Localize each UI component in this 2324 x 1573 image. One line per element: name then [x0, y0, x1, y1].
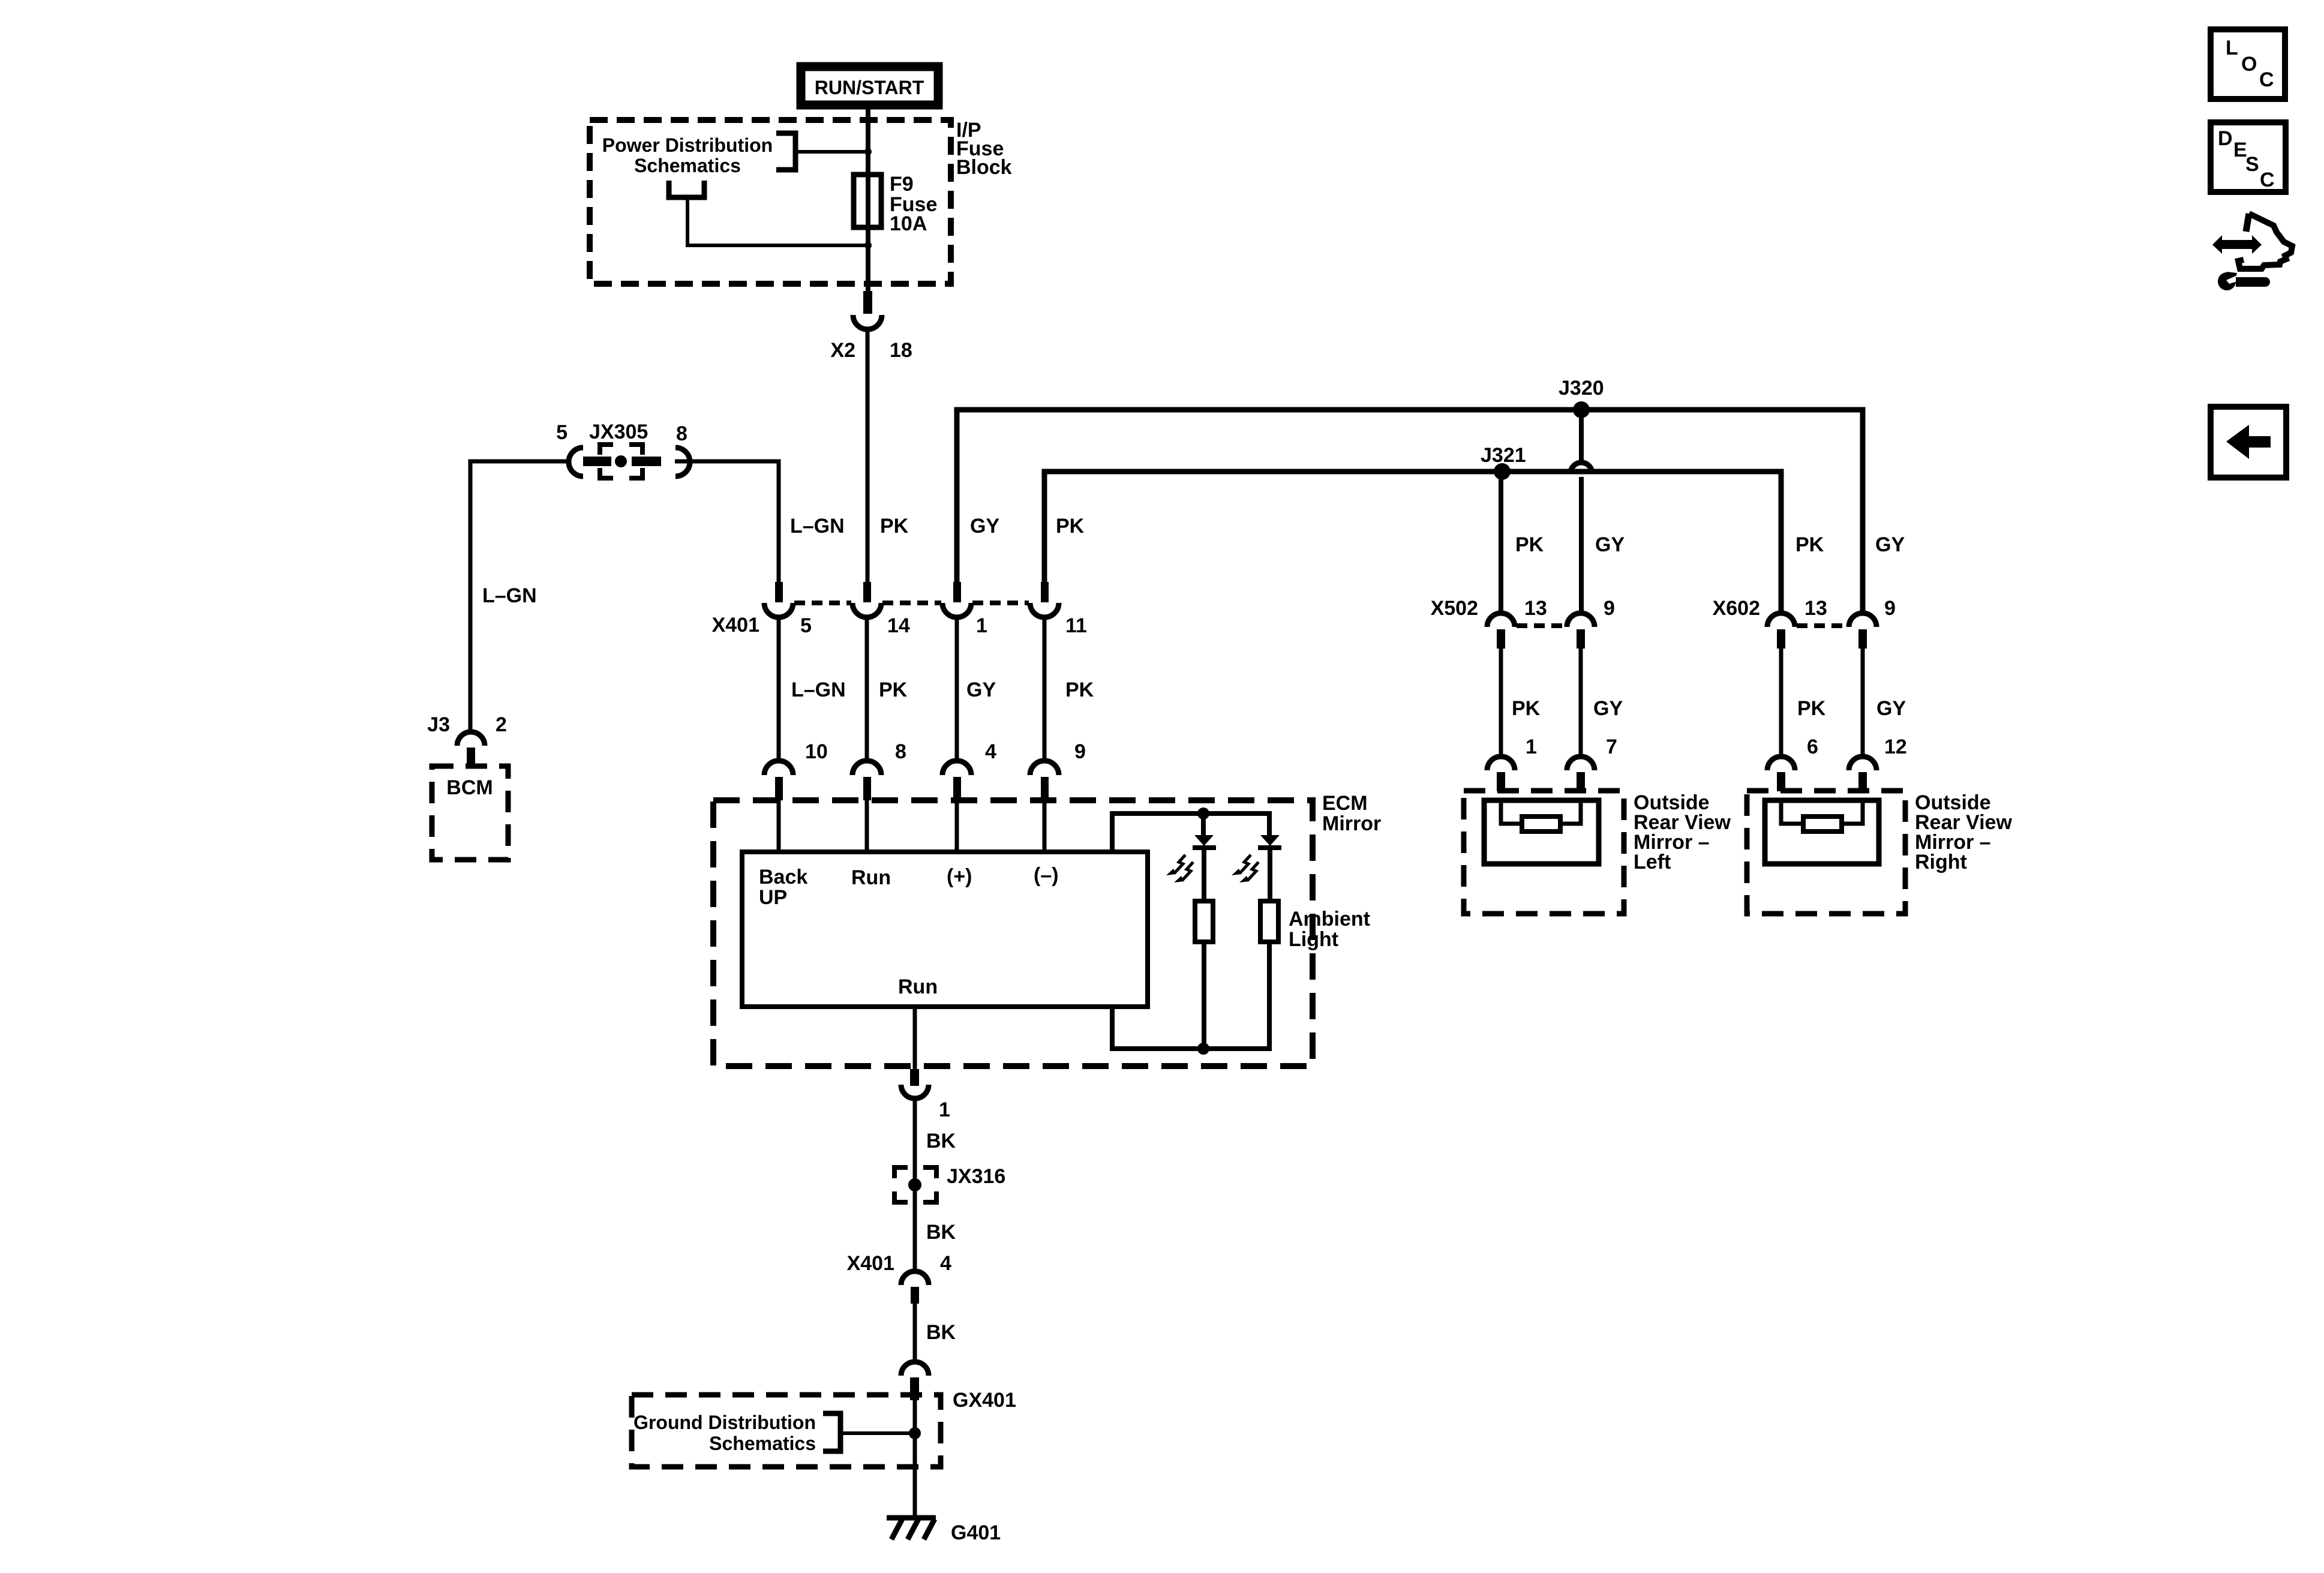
- mirror-left element box: [1484, 800, 1599, 864]
- junction J321 wire: [1044, 472, 1781, 613]
- svg-text:GY: GY: [1593, 697, 1623, 720]
- node J321: [1494, 463, 1511, 480]
- svg-text:1: 1: [976, 614, 987, 637]
- wire BK: [913, 1304, 917, 1361]
- mirror-right element box: [1765, 800, 1879, 864]
- junction J320 wire: [957, 410, 1863, 613]
- wire pin 10 to Back UP: [777, 800, 781, 852]
- connector dashes: [1517, 623, 1566, 628]
- svg-text:PK: PK: [880, 515, 909, 538]
- wire GY X401-1 to pin 4: [955, 617, 959, 761]
- splice JX316: [894, 1165, 1005, 1202]
- pin 10 terminal: [764, 761, 793, 775]
- svg-text:X502: X502: [1431, 597, 1478, 620]
- svg-text:2: 2: [496, 713, 507, 736]
- svg-text:4: 4: [985, 740, 996, 763]
- svg-text:C: C: [2259, 68, 2274, 91]
- node: [1197, 807, 1209, 819]
- svg-text:Block: Block: [956, 156, 1012, 179]
- connector X602 row: [1713, 597, 1896, 649]
- svg-text:GX401: GX401: [953, 1389, 1016, 1412]
- photodiode D1: [1193, 813, 1216, 901]
- svg-text:11: 11: [1065, 614, 1087, 637]
- svg-text:L–GN: L–GN: [790, 515, 845, 538]
- ground G401: [887, 1518, 1001, 1544]
- svg-text:L: L: [2226, 37, 2238, 59]
- svg-text:(+): (+): [947, 865, 972, 888]
- svg-text:RUN/START: RUN/START: [815, 77, 924, 98]
- pin 9 terminal: [1849, 613, 1876, 627]
- svg-text:UP: UP: [759, 886, 787, 909]
- svg-text:X602: X602: [1713, 597, 1760, 620]
- svg-text:10A: 10A: [890, 212, 927, 235]
- resistor mirror-left: [1522, 816, 1560, 831]
- svg-text:F9: F9: [890, 173, 914, 196]
- svg-text:GY: GY: [970, 515, 999, 538]
- svg-text:BCM: BCM: [446, 776, 493, 799]
- icon DESC: [2211, 122, 2286, 192]
- svg-text:5: 5: [556, 421, 568, 444]
- svg-text:Left: Left: [1634, 851, 1671, 873]
- wire GY X502-9 to mirror pin 7: [1579, 649, 1583, 756]
- wire pin 8 to Run: [865, 800, 869, 852]
- connector X401 pin 4: [847, 1252, 951, 1304]
- svg-text:PK: PK: [1797, 697, 1826, 720]
- ECM mirror inner box: [742, 852, 1148, 1007]
- node GX401 tap: [909, 1427, 921, 1439]
- svg-text:Ambient: Ambient: [1289, 908, 1370, 930]
- fuse F9 10A: [854, 173, 937, 235]
- bracket stub below Schematics: [669, 181, 868, 245]
- BCM module: [432, 766, 508, 860]
- resistor R1: [1195, 901, 1213, 942]
- svg-text:Power Distribution: Power Distribution: [602, 134, 773, 156]
- connector dashes: [794, 601, 1029, 605]
- splice JX305: [556, 421, 690, 478]
- bracket to Ground Distribution: [823, 1413, 914, 1451]
- svg-text:GY: GY: [1876, 697, 1906, 720]
- svg-text:GY: GY: [966, 679, 996, 701]
- svg-text:Light: Light: [1289, 928, 1338, 951]
- svg-text:L–GN: L–GN: [482, 584, 537, 607]
- Outside Rear View Mirror Left box: [1464, 791, 1731, 914]
- svg-text:7: 7: [1606, 736, 1617, 758]
- svg-text:GY: GY: [1595, 533, 1625, 556]
- wire X2 to X401 pin 14: [866, 331, 870, 582]
- wire PK X602-13 to mirror pin 6: [1779, 649, 1783, 756]
- wire J321 to X502 pin 13: [1499, 472, 1503, 613]
- svg-text:PK: PK: [1065, 679, 1094, 701]
- wire PK X401-14 to pin 8: [865, 617, 869, 761]
- svg-text:PK: PK: [1795, 533, 1824, 556]
- svg-text:O: O: [2241, 53, 2257, 76]
- svg-text:PK: PK: [1512, 697, 1541, 720]
- wire JX305 to BCM corner: [470, 461, 569, 733]
- svg-text:BK: BK: [926, 1321, 956, 1344]
- svg-text:5: 5: [800, 614, 812, 637]
- svg-text:6: 6: [1807, 736, 1818, 758]
- svg-text:BK: BK: [926, 1130, 956, 1152]
- junction dot: [864, 242, 872, 249]
- svg-text:1: 1: [1526, 736, 1537, 758]
- resistor R2: [1260, 901, 1278, 942]
- svg-text:Ground Distribution: Ground Distribution: [633, 1412, 816, 1433]
- svg-text:PK: PK: [879, 679, 908, 701]
- node: [1197, 1043, 1209, 1055]
- svg-text:Back: Back: [759, 866, 807, 888]
- svg-text:18: 18: [890, 339, 912, 362]
- node J320: [1573, 401, 1590, 418]
- svg-text:C: C: [2260, 169, 2275, 191]
- node RUN/START: [801, 67, 938, 105]
- icon back arrow: [2211, 407, 2286, 478]
- mirror-right connector pins 6 12: [1767, 736, 1907, 791]
- bracket to Power Distribution: [776, 133, 868, 170]
- svg-text:8: 8: [676, 422, 687, 445]
- svg-text:12: 12: [1884, 736, 1907, 758]
- svg-text:Right: Right: [1915, 851, 1967, 873]
- light arrows: [1166, 855, 1259, 882]
- wire PK X502-13 to mirror pin 1: [1499, 649, 1503, 756]
- wire top rail: [1112, 813, 1269, 852]
- connector J3 pin 2: [427, 713, 507, 767]
- pin 9 terminal: [1030, 761, 1059, 775]
- wire Run output to ground: [913, 1007, 917, 1069]
- connector dashes: [1797, 623, 1848, 628]
- junction dot: [864, 148, 872, 155]
- wire RUN/START to fuse: [866, 109, 870, 175]
- wire pin 4 to (+): [955, 800, 959, 852]
- svg-text:Run: Run: [898, 975, 938, 998]
- pin 4 terminal: [942, 761, 971, 775]
- wire through GX401: [913, 1395, 917, 1517]
- connector X2 pin 18: [830, 291, 912, 362]
- svg-text:13: 13: [1804, 597, 1827, 620]
- svg-text:Schematics: Schematics: [634, 155, 741, 176]
- svg-text:JX305: JX305: [589, 421, 648, 443]
- I/P Fuse Block box: [590, 120, 951, 284]
- svg-text:X2: X2: [830, 339, 855, 362]
- svg-text:JX316: JX316: [947, 1165, 1005, 1188]
- svg-text:Mirror: Mirror: [1322, 812, 1381, 835]
- wire L-GN X401-5 to pin 10: [777, 617, 781, 761]
- svg-text:(–): (–): [1034, 864, 1059, 887]
- pin 11 terminal: [1041, 582, 1049, 602]
- resistor mirror-right: [1803, 816, 1842, 831]
- svg-text:BK: BK: [926, 1221, 956, 1244]
- pin 8 terminal: [852, 761, 881, 775]
- wire fuse to X2 pin: [866, 227, 870, 291]
- wire PK X401-11 to pin 9: [1043, 617, 1047, 761]
- pin 5 terminal: [775, 582, 783, 602]
- svg-text:4: 4: [940, 1252, 951, 1275]
- svg-text:Schematics: Schematics: [709, 1433, 816, 1454]
- ambient light sensing circuit: [1112, 807, 1370, 1055]
- photodiode D2: [1258, 835, 1281, 901]
- svg-text:9: 9: [1074, 740, 1086, 763]
- pin 14 terminal: [863, 582, 871, 602]
- wire J320 to X502 pin 9 with hop over J321: [1571, 410, 1592, 613]
- mirror-left connector pins 1 7: [1487, 736, 1617, 791]
- Power Distribution Schematics reference: [602, 134, 773, 176]
- pin 9 terminal: [1567, 613, 1595, 627]
- connector X401 top row: [712, 582, 1087, 637]
- wire BK: [913, 1202, 917, 1271]
- connector pin 1 (mirror ground): [901, 1069, 950, 1121]
- svg-text:13: 13: [1524, 597, 1547, 620]
- svg-text:X401: X401: [847, 1252, 894, 1275]
- svg-text:PK: PK: [1056, 515, 1085, 538]
- svg-text:9: 9: [1604, 597, 1615, 620]
- ECM mirror connector pins 10 8 4 9: [764, 740, 1086, 800]
- svg-text:L–GN: L–GN: [791, 679, 846, 701]
- pin 1 terminal: [953, 582, 961, 602]
- GX401 box: [632, 1389, 1016, 1467]
- svg-text:10: 10: [805, 740, 828, 763]
- svg-text:GY: GY: [1875, 533, 1905, 556]
- connector X502 row: [1431, 597, 1615, 649]
- Outside Rear View Mirror Right box: [1747, 791, 2012, 914]
- svg-text:S: S: [2245, 153, 2259, 176]
- svg-text:9: 9: [1884, 597, 1896, 620]
- wire JX305 to X401 pin 5: [675, 461, 779, 582]
- svg-text:8: 8: [895, 740, 906, 763]
- wire bottom rail: [1112, 942, 1269, 1049]
- wire BK: [913, 1099, 917, 1167]
- pin 13 terminal: [1767, 613, 1795, 627]
- svg-text:D: D: [2218, 127, 2233, 150]
- pin 13 terminal: [1487, 613, 1515, 627]
- svg-text:1: 1: [939, 1098, 950, 1121]
- icon vehicle service: [2212, 214, 2292, 290]
- svg-text:X401: X401: [712, 614, 759, 637]
- svg-text:14: 14: [887, 614, 910, 637]
- svg-text:ECM: ECM: [1322, 792, 1368, 815]
- svg-text:J321: J321: [1481, 444, 1526, 467]
- svg-text:J3: J3: [427, 713, 450, 736]
- svg-text:Run: Run: [851, 866, 891, 889]
- ECM Mirror box: [713, 800, 1313, 1066]
- wire pin 9 to (-): [1043, 800, 1047, 852]
- svg-text:G401: G401: [951, 1521, 1001, 1544]
- connector to GX401: [901, 1362, 929, 1400]
- svg-text:PK: PK: [1515, 533, 1544, 556]
- Ground Distribution Schematics reference: [633, 1412, 816, 1454]
- icon LOC: [2211, 29, 2285, 99]
- svg-text:J320: J320: [1559, 377, 1604, 400]
- wire GY X602-9 to mirror pin 12: [1861, 649, 1865, 756]
